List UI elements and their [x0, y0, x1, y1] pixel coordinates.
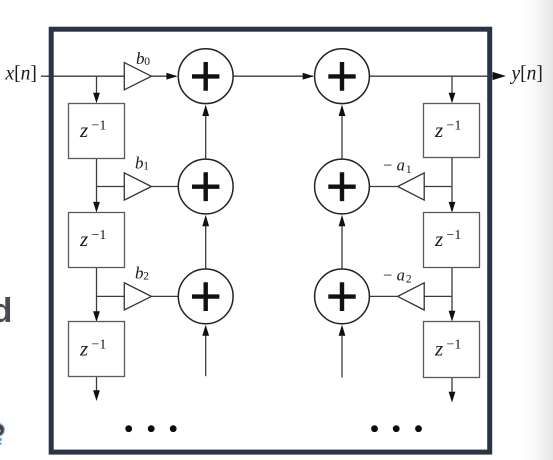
delay block Z1 — [69, 104, 125, 159]
svg-text:1: 1 — [143, 161, 149, 173]
arrow into delay Z3 — [93, 311, 100, 322]
svg-text:z: z — [434, 337, 443, 361]
arrow into adder S1 — [166, 73, 177, 80]
svg-text:b: b — [136, 49, 145, 68]
svg-text:x[n]: x[n] — [5, 63, 37, 84]
wire branch row1 left to delay — [96, 76, 98, 95]
wire adder S5 to adder S4 — [341, 115, 343, 159]
wire -a1 to adder S5 — [370, 186, 398, 188]
delay block Z6 — [424, 322, 480, 378]
label z-1 in Z6 — [434, 337, 461, 361]
wire input to adder S3 — [205, 335, 207, 376]
svg-text:2: 2 — [143, 271, 149, 283]
svg-text:z: z — [434, 227, 443, 251]
svg-text:0: 0 — [144, 56, 150, 68]
right edge shading — [521, 0, 553, 460]
gain triangle b0 — [124, 63, 151, 90]
arrow into delay Z2 — [93, 202, 100, 213]
adder S6 — [315, 269, 370, 324]
svg-text:−1: −1 — [447, 228, 462, 243]
arrow out bottom right — [449, 392, 456, 403]
gain triangle b2 — [124, 283, 151, 310]
wire adder S2 to adder S1 — [205, 115, 207, 159]
arrow out bottom left — [93, 390, 100, 401]
wire adder S3 to adder S2 — [205, 225, 207, 269]
arrow into adder S6 bottom — [339, 325, 346, 336]
label z-1 in Z1 — [79, 118, 106, 142]
wire adder S6 to adder S5 — [341, 225, 343, 269]
wire right delay column row1-row2 — [451, 157, 453, 204]
svg-text:z: z — [79, 118, 88, 142]
svg-text:−1: −1 — [92, 228, 107, 243]
arrow into adder S1 bottom — [202, 105, 209, 116]
svg-text:2: 2 — [406, 274, 412, 286]
arrow into adder S4 bottom — [339, 105, 346, 116]
svg-text:z: z — [79, 227, 88, 251]
svg-text:z: z — [79, 337, 88, 361]
svg-text:1: 1 — [406, 164, 412, 176]
svg-text:a: a — [397, 265, 405, 284]
svg-text:−1: −1 — [447, 337, 462, 352]
wire left delay column row2-row3 — [96, 268, 98, 314]
arrow into adder S4 — [303, 73, 314, 80]
gain triangle -a2 — [398, 283, 425, 310]
svg-text:−: − — [383, 156, 392, 175]
arrow into delay Z6 — [449, 311, 456, 322]
label z-1 in Z3 — [79, 337, 106, 361]
delay block Z2 — [69, 213, 125, 268]
frame border — [51, 29, 490, 452]
svg-text:−: − — [383, 265, 392, 284]
wire branch row3 left — [97, 295, 125, 297]
delay block Z5 — [424, 213, 480, 268]
adder S3 — [178, 269, 233, 324]
adder S2 — [178, 159, 233, 214]
wire branch row3 right — [424, 295, 452, 297]
adder S4 — [315, 49, 370, 104]
wire branch row1 right to delay — [451, 76, 453, 95]
svg-text:b: b — [135, 264, 144, 283]
wire branch row2 left — [97, 186, 125, 188]
wire left delay column row1-row2 — [96, 158, 98, 204]
gain triangle b1 — [124, 173, 151, 200]
svg-text:−1: −1 — [447, 119, 462, 134]
adder S5 — [315, 159, 370, 214]
wire below delay Z6 — [451, 378, 453, 393]
wire b2 to adder S3 — [151, 295, 178, 297]
adder S1 — [178, 49, 233, 104]
arrow into adder S2 bottom — [202, 215, 209, 226]
wire below delay Z3 — [96, 377, 98, 392]
gain triangle -a1 — [398, 173, 425, 200]
output arrow y[n] — [493, 72, 506, 80]
svg-text:d: d — [0, 292, 12, 330]
wire -a2 to adder S6 — [370, 295, 398, 297]
svg-text:a: a — [397, 156, 405, 175]
arrow into delay Z1 — [93, 93, 100, 104]
arrow into delay Z4 — [449, 93, 456, 104]
delay block Z4 — [424, 104, 480, 158]
label z-1 in Z5 — [434, 227, 461, 251]
arrow into delay Z5 — [449, 202, 456, 213]
svg-text:b: b — [135, 154, 144, 173]
label z-1 in Z2 — [79, 227, 106, 251]
delay block Z3 — [69, 322, 125, 377]
wire b1 to adder S2 — [151, 186, 178, 188]
arrow into adder S5 bottom — [339, 215, 346, 226]
wire right delay column row2-row3 — [451, 268, 453, 314]
cut-off icon bottom left — [0, 424, 4, 445]
arrow into adder S3 bottom — [202, 325, 209, 336]
svg-text:−1: −1 — [92, 337, 107, 352]
label z-1 in Z4 — [434, 118, 461, 142]
svg-text:y[n]: y[n] — [510, 63, 543, 84]
svg-text:z: z — [434, 118, 443, 142]
ellipsis dots left — [125, 425, 176, 432]
wire input to adder S6 — [341, 335, 343, 378]
wire branch row2 right — [424, 186, 452, 188]
wire x[n] main row1 — [41, 75, 494, 77]
ellipsis dots right — [371, 425, 422, 432]
svg-text:−1: −1 — [92, 119, 107, 134]
